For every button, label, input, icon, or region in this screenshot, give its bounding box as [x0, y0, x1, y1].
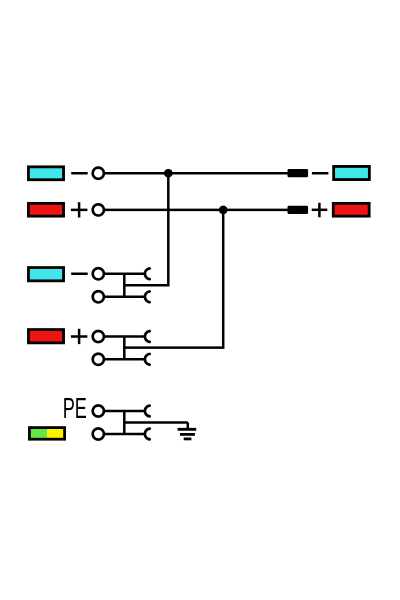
- svg-text:PE: PE: [63, 392, 87, 424]
